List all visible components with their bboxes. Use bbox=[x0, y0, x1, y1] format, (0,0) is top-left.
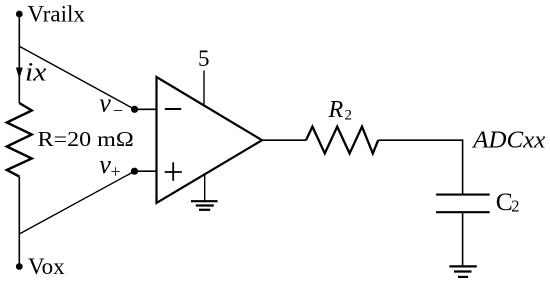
wire from Vrailx down to resistor R bbox=[18, 14, 20, 103]
current arrow ix bbox=[16, 68, 23, 80]
resistor R (20 mOhm shunt) bbox=[7, 103, 32, 177]
resistor R2 bbox=[306, 127, 378, 154]
ground (C2) bbox=[449, 265, 476, 267]
svg-text:ix: ix bbox=[25, 57, 47, 86]
node v- (dot) bbox=[131, 106, 138, 113]
wire v+ stub into op-amp bbox=[135, 170, 158, 172]
supply pin wire bbox=[203, 71, 205, 106]
wire from C2 down to ground bbox=[462, 213, 464, 266]
svg-text:v: v bbox=[99, 150, 111, 179]
svg-text:R: R bbox=[328, 97, 344, 123]
svg-text:−: − bbox=[113, 101, 123, 121]
node v+ (dot) bbox=[131, 168, 138, 175]
svg-text:2: 2 bbox=[511, 197, 519, 216]
node Vox (dot) bbox=[16, 263, 23, 270]
svg-text:2: 2 bbox=[345, 107, 353, 123]
ground (op-amp) bbox=[191, 200, 218, 202]
svg-text:Vrailx: Vrailx bbox=[28, 2, 86, 27]
wire from bottom junction to non-inverting input bbox=[19, 171, 134, 234]
wire op-amp output bbox=[262, 139, 306, 141]
svg-text:v: v bbox=[99, 89, 111, 118]
wire from top junction to inverting input bbox=[19, 46, 134, 109]
wire v- stub into op-amp bbox=[135, 108, 158, 110]
wire from resistor R down to Vox bbox=[18, 177, 20, 267]
op-amp inverting input minus sign bbox=[165, 108, 181, 110]
svg-text:C: C bbox=[496, 187, 513, 216]
svg-text:5: 5 bbox=[198, 46, 210, 71]
wire from R2 to ADC node bbox=[378, 140, 462, 194]
node Vrailx (dot) bbox=[16, 11, 23, 18]
svg-text:R=20 mΩ: R=20 mΩ bbox=[38, 127, 134, 151]
svg-text:+: + bbox=[111, 162, 121, 182]
capacitor C2 bbox=[436, 194, 490, 196]
op-amp U1 (triangle) bbox=[157, 77, 263, 203]
svg-text:Vox: Vox bbox=[28, 254, 65, 279]
wire op-amp ground pin bbox=[204, 174, 206, 201]
svg-text:ADCxx: ADCxx bbox=[471, 128, 545, 154]
op-amp non-inverting input plus sign bbox=[165, 171, 182, 173]
